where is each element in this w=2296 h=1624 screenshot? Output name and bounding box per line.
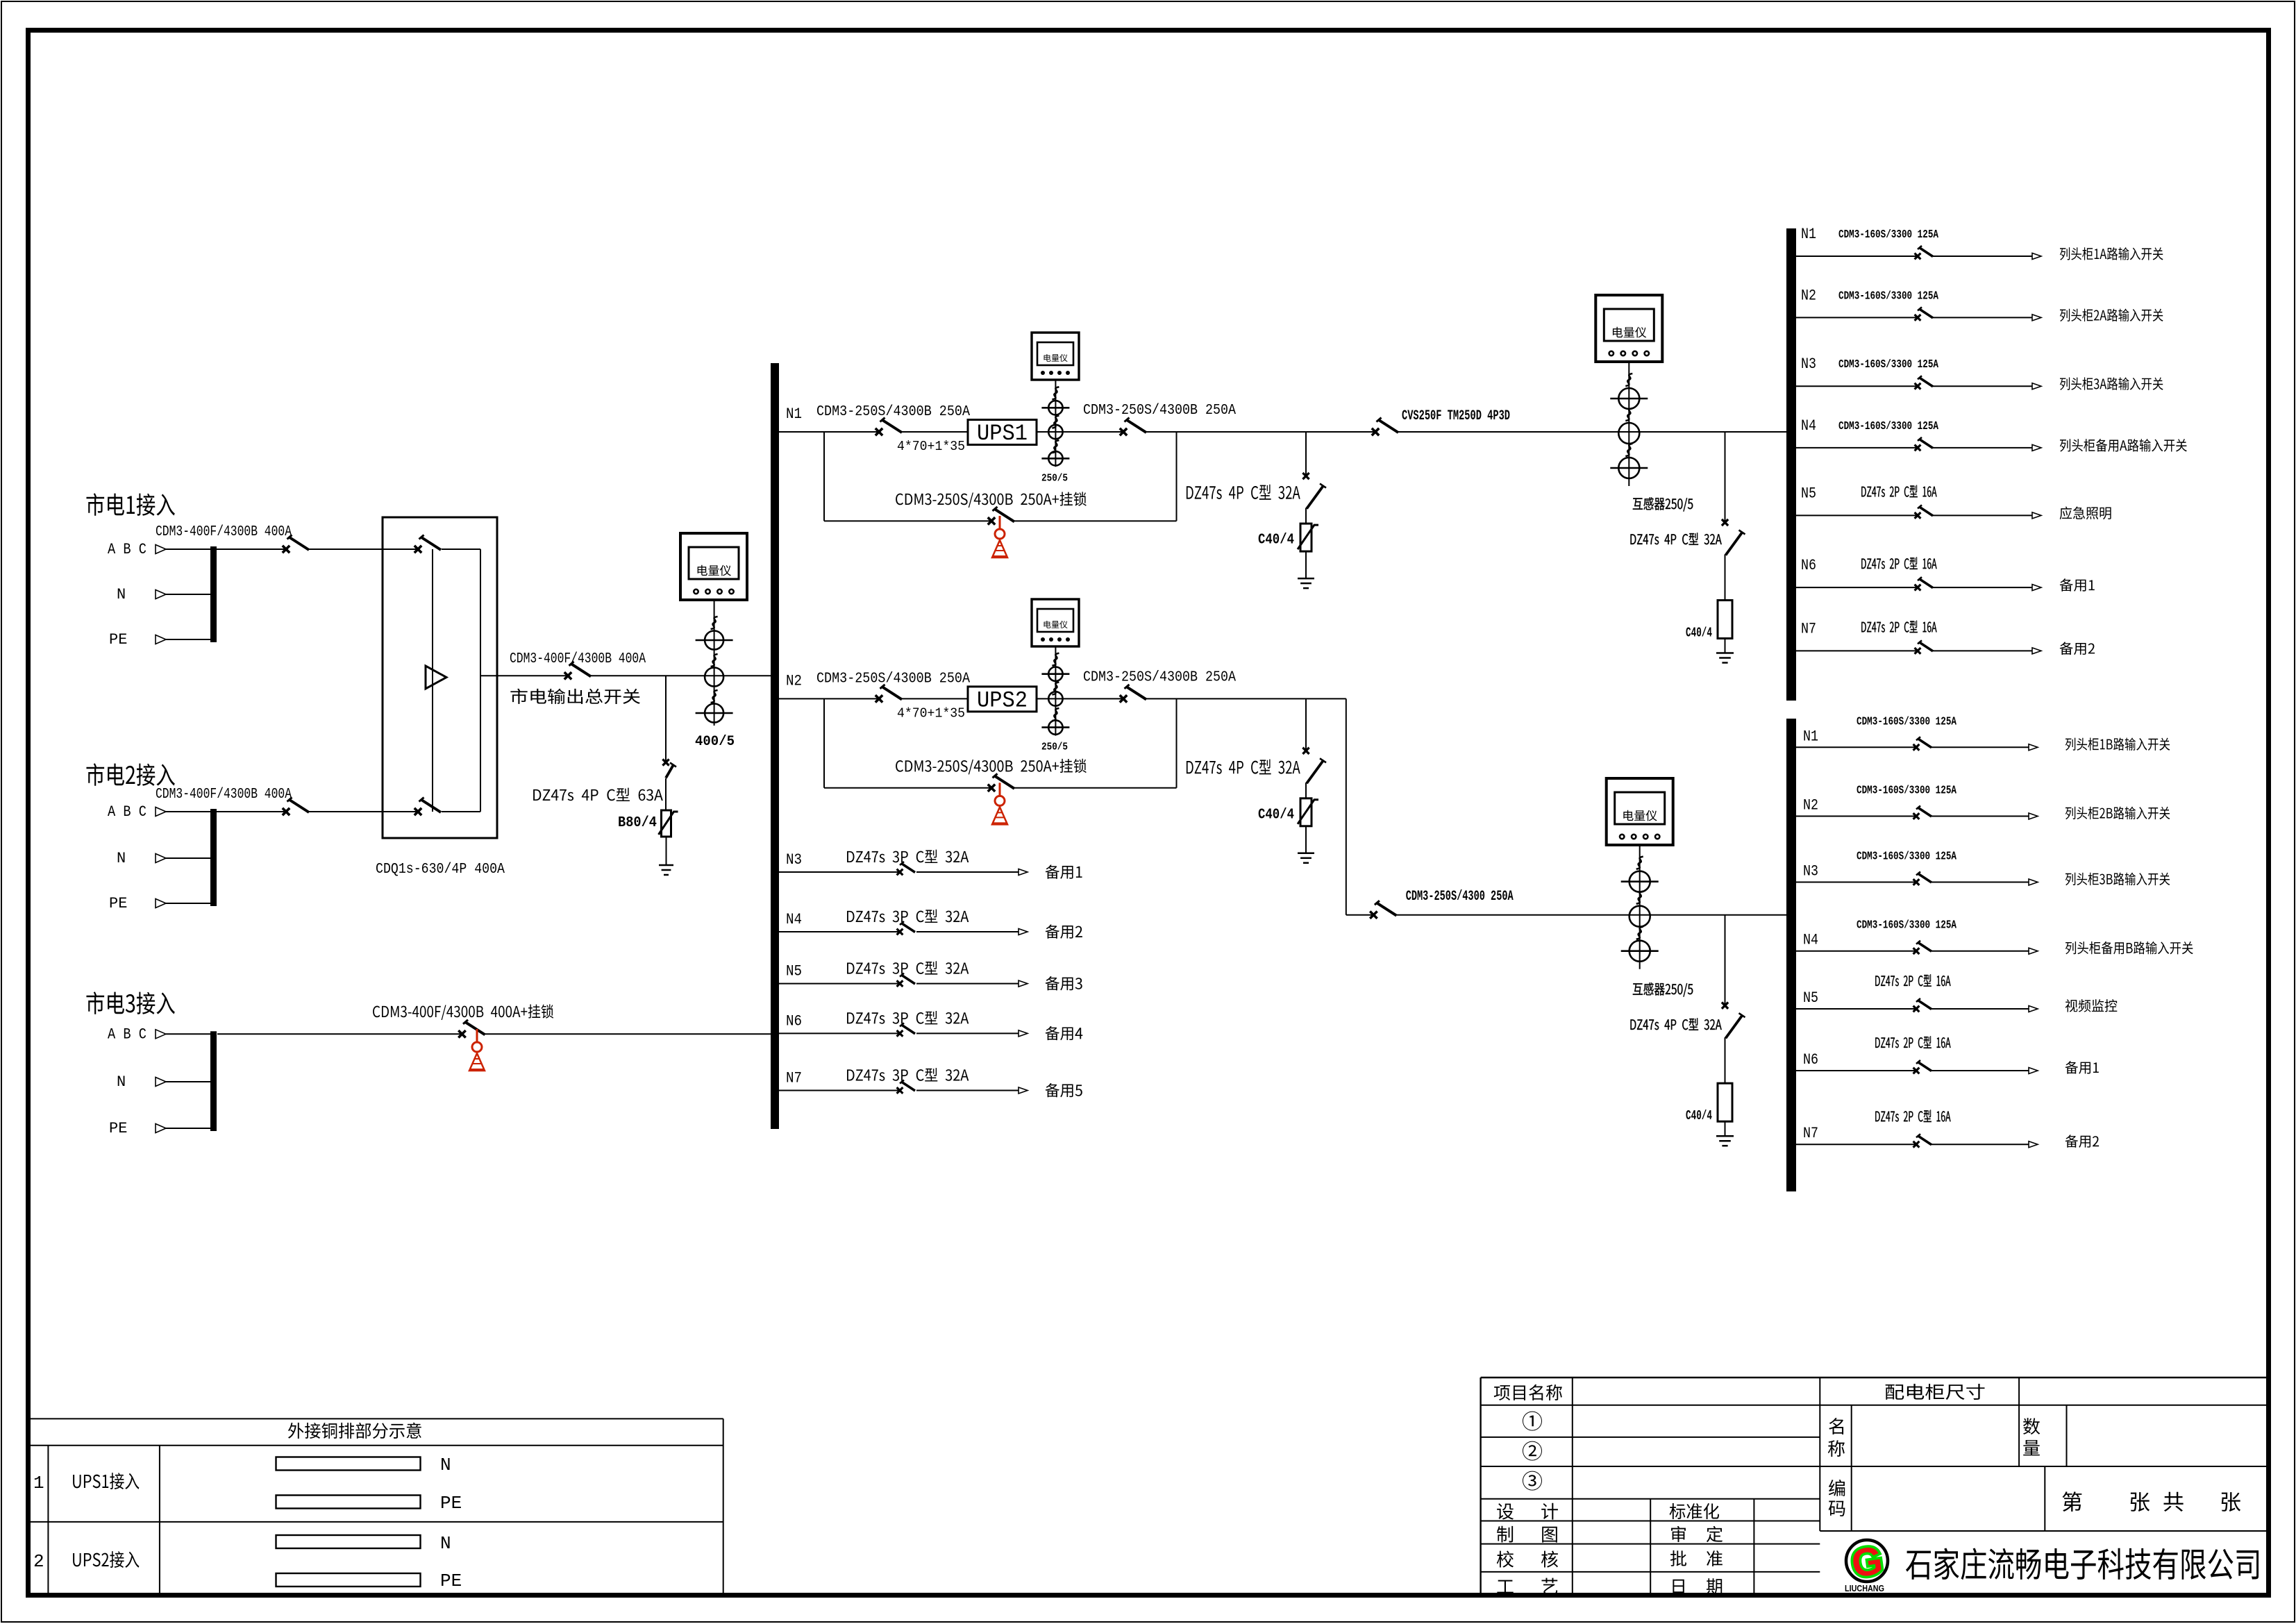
- wire mid bus N6 branch: [779, 1032, 900, 1034]
- wire meter to CT (UPS2): [1055, 646, 1056, 736]
- wire C40/4 to ground (N2): [1305, 826, 1307, 853]
- wire breaker to outgoing (bus A N3): [1933, 385, 2032, 387]
- svg-text:N6: N6: [786, 1012, 802, 1030]
- wire N1 to CVS250F breaker: [1146, 431, 1375, 433]
- breaker CDM3-250S/4300B 250A (N2 input): [875, 685, 902, 703]
- wire N to busbar (市电1): [166, 594, 210, 595]
- wire busbar to breaker (市电1): [217, 549, 286, 550]
- wire bus A N5 branch: [1796, 514, 1918, 516]
- svg-text:N7: N7: [786, 1070, 802, 1087]
- label N (UPS1 bar): [440, 1455, 451, 1475]
- label mains title 市电2接入: [86, 763, 174, 786]
- wire busbar to breaker (市电2): [217, 811, 286, 812]
- svg-text:250/5: 250/5: [1041, 472, 1068, 484]
- label LIUCHANG: [1845, 1583, 1884, 1593]
- label DZ47s 4P C型 32A (N2): [1187, 759, 1300, 774]
- label CDM3-400F/4300B 400A+挂锁 (市电3): [373, 1004, 553, 1020]
- label DZ47s 3P C型 32A (mid N4): [847, 910, 969, 923]
- breaker DZ47s 2P C型 16A (bus B N5): [1913, 998, 1932, 1012]
- breaker DZ47s 4P C型 32A (bus A): [1722, 519, 1745, 555]
- label DZ47s 3P C型 32A (mid N7): [847, 1068, 969, 1081]
- ATS changeover switch CDQ1s-630/4P outer box: [383, 517, 497, 838]
- wire bus B N2 branch: [1796, 816, 1916, 817]
- label CDQ1s-630/4P 400A: [376, 862, 505, 878]
- breaker CDM3-160S/3300 125A (bus A N2): [1915, 307, 1933, 320]
- outgoing arrow (bus A N5): [2032, 512, 2041, 519]
- node N4 (bus B): [1803, 932, 1818, 949]
- label DZ47s 2P C型 16A (bus A N5): [1861, 485, 1936, 498]
- wire bus B N3 branch: [1796, 882, 1916, 883]
- wire breaker to ATS (市电1): [309, 549, 418, 550]
- break mark: [1052, 653, 1059, 666]
- label 标准化: [1670, 1503, 1719, 1519]
- label 4*70+1*35 (N1): [897, 439, 965, 454]
- label 审定: [1671, 1526, 1723, 1542]
- outgoing arrow (bus A N3): [2032, 383, 2041, 390]
- node N input flag (市电3): [156, 1078, 166, 1087]
- node A B C input flag (市电3): [156, 1030, 166, 1039]
- wire junction to DZ47s 32A (N2): [1305, 698, 1307, 751]
- wire junction to DZ47s 32A (N1): [1305, 432, 1307, 476]
- wire breaker to outgoing (bus B N3): [1932, 882, 2029, 883]
- wire breaker to B80/4: [665, 778, 667, 810]
- label PE (UPS1 bar): [440, 1493, 462, 1514]
- wire breaker to outgoing (bus A N7): [1933, 650, 2032, 651]
- svg-text:B80/4: B80/4: [618, 815, 657, 831]
- breaker DZ47s 2P C型 16A (bus A N5): [1915, 505, 1933, 518]
- node N4 (bus A): [1801, 417, 1816, 435]
- CT 400/5 phase B: [705, 668, 723, 687]
- outgoing arrow (bus A N1): [2032, 253, 2041, 260]
- label C40/4 (bus A): [1686, 626, 1712, 641]
- svg-text:CDM3-160S/3300 125A: CDM3-160S/3300 125A: [1838, 289, 1938, 302]
- wire bypass right drop (N1): [1176, 432, 1178, 521]
- label 互感器250/5 (bus B): [1633, 982, 1693, 996]
- label CDM3-250S/4300B 250A (N1 input): [816, 404, 970, 420]
- outgoing arrow (bus B N2): [2029, 813, 2038, 819]
- node PE input flag (市电2): [156, 899, 166, 908]
- label mains title 市电1接入: [86, 493, 174, 516]
- breaker DZ47s 3P C型 32A (mid N6): [897, 1023, 915, 1036]
- svg-text:N4: N4: [786, 911, 802, 928]
- label phase A B C (市电3): [108, 1026, 146, 1043]
- busbar 市电1 input bus: [210, 546, 217, 642]
- meter 电量仪 (UPS2): [1032, 599, 1079, 646]
- label DZ47s 2P C型 16A (bus B N6): [1875, 1036, 1950, 1048]
- outgoing arrow (bus B N7): [2029, 1141, 2038, 1148]
- node N5 (bus B): [1803, 989, 1818, 1007]
- CT 250/5 phase C (UPS2): [1041, 720, 1069, 734]
- node N5 (bus A): [1801, 485, 1816, 502]
- CT 250/5 phase B (UPS1): [1048, 425, 1062, 439]
- wire UPS1 to CT: [1037, 431, 1123, 433]
- wire breaker to outgoing (bus A N5): [1933, 514, 2032, 516]
- wire bus B N1 branch: [1796, 746, 1916, 748]
- padlock symbol (bypass N2): [992, 782, 1007, 824]
- outgoing arrow (mid N7): [1019, 1087, 1028, 1094]
- label 列头柜1B路输入开关: [2065, 737, 2170, 751]
- svg-text:A B C: A B C: [108, 541, 146, 558]
- label PE (UPS2 bar): [440, 1571, 462, 1591]
- wire junction to DZ47s 63A breaker: [665, 676, 667, 762]
- node N1 (bus A): [1801, 226, 1816, 243]
- wire bus A N6 branch: [1796, 587, 1918, 588]
- node PE input flag (市电3): [156, 1124, 166, 1133]
- svg-text:PE: PE: [109, 631, 127, 648]
- svg-text:N3: N3: [1803, 863, 1818, 880]
- node N3 (mid bus): [786, 851, 802, 869]
- svg-text:CDM3-250S/4300B 250A: CDM3-250S/4300B 250A: [1083, 403, 1236, 419]
- breaker CDM3-400F/4300B 400A 市电输出总开关: [564, 662, 591, 680]
- label 外接铜排部分示意: [288, 1423, 421, 1439]
- wire 市电3 breaker to mid bus N: [485, 1033, 771, 1035]
- label DZ47s 4P C型 32A (N1): [1187, 485, 1300, 500]
- copper bar PE (UPS2): [276, 1573, 421, 1587]
- label CDM3-250S/4300B 250A (N2 output): [1083, 669, 1236, 685]
- wire breaker to outgoing (bus A N1): [1933, 256, 2032, 257]
- label CDM3-160S/3300 125A (bus B N3): [1857, 850, 1956, 863]
- label 400/5: [695, 734, 735, 750]
- wire breaker to outgoing (mid N5): [916, 983, 1019, 985]
- label 备用4: [1046, 1026, 1083, 1040]
- padlock symbol (市电3 breaker): [469, 1029, 485, 1071]
- label 列头柜3A路输入开关: [2060, 377, 2163, 390]
- meter 电量仪 (UPS1): [1032, 333, 1079, 380]
- label 应急照明: [2060, 506, 2111, 519]
- wire ABC to busbar (市电2): [166, 811, 210, 812]
- break mark: [711, 617, 718, 629]
- breaker CDM3-400F/4300B 400A (市电2): [283, 798, 309, 816]
- svg-text:CVS250F TM250D 4P3D: CVS250F TM250D 4P3D: [1402, 408, 1510, 424]
- table header divider: [28, 1445, 723, 1446]
- label 日期: [1673, 1578, 1722, 1594]
- breaker CDM3-250S/4300 250A (bus B feed): [1370, 901, 1396, 919]
- busbar N (middle distribution bus): [771, 363, 779, 1129]
- wire UPS2 to CT: [1037, 698, 1123, 699]
- ATS internal top link: [442, 549, 480, 550]
- svg-text:CDM3-400F/4300B 400A: CDM3-400F/4300B 400A: [156, 787, 292, 803]
- outgoing arrow (mid N5): [1019, 980, 1028, 987]
- svg-text:UPS1: UPS1: [977, 421, 1028, 446]
- label CDM3-160S/3300 125A (bus B N1): [1857, 714, 1956, 728]
- breaker CDM3-250S/4300B 250A+挂锁 (bypass N1): [988, 507, 1014, 525]
- wire mid bus to breaker (N1): [779, 431, 879, 433]
- breaker CDM3-160S/3300 125A (bus B N1): [1913, 737, 1932, 750]
- svg-text:PE: PE: [440, 1493, 462, 1514]
- wire PE to busbar (市电1): [166, 639, 210, 640]
- ground (SPD N1): [1298, 578, 1314, 588]
- label 项目名称: [1494, 1384, 1562, 1400]
- node N6 (mid bus): [786, 1012, 802, 1030]
- wire breaker to C40/4 (N1): [1305, 508, 1307, 524]
- outgoing arrow (bus A N4): [2032, 444, 2041, 451]
- svg-text:CDM3-160S/3300 125A: CDM3-160S/3300 125A: [1838, 419, 1938, 433]
- wire breaker to UPS2: [902, 698, 968, 699]
- svg-text:CDM3-160S/3300 125A: CDM3-160S/3300 125A: [1857, 919, 1956, 932]
- break mark: [1636, 927, 1643, 939]
- CT 互感器250/5 phase C (bus A): [1610, 458, 1648, 478]
- wire PE to busbar (市电2): [166, 903, 210, 904]
- node N input flag (市电1): [156, 590, 166, 599]
- label 市电输出总开关: [510, 689, 640, 704]
- label 备用3: [1046, 976, 1082, 990]
- svg-text:N1: N1: [1803, 728, 1818, 745]
- label 石家庄流畅电子科技有限公司: [1906, 1548, 2259, 1580]
- label row 1: [33, 1473, 44, 1493]
- label row 2: [33, 1551, 44, 1572]
- svg-text:CDM3-250S/4300B 250A: CDM3-250S/4300B 250A: [1083, 669, 1236, 685]
- label C40/4 (bus B): [1686, 1108, 1712, 1123]
- label 列头柜备用B路输入开关: [2065, 941, 2193, 955]
- svg-text:PE: PE: [109, 1120, 127, 1137]
- wire C40/4 to ground (N1): [1305, 551, 1307, 578]
- label PE (市电1): [109, 631, 127, 648]
- svg-text:1: 1: [33, 1473, 44, 1493]
- surge arrester C40/4 (N1): [1298, 524, 1318, 551]
- label CVS250F TM250D 4P3D: [1402, 408, 1510, 424]
- wire meter to CT (bus B): [1639, 844, 1641, 969]
- svg-text:N1: N1: [786, 405, 802, 423]
- svg-text:N4: N4: [1803, 932, 1818, 949]
- label 配电柜尺寸: [1886, 1384, 1985, 1400]
- label N (市电3): [117, 1073, 126, 1091]
- wire breaker to outgoing (bus B N2): [1932, 816, 2029, 817]
- svg-text:CDM3-160S/3300 125A: CDM3-160S/3300 125A: [1838, 358, 1938, 371]
- outgoing arrow (mid N4): [1019, 929, 1028, 935]
- svg-text:N3: N3: [1801, 355, 1816, 373]
- svg-text:PE: PE: [440, 1571, 462, 1591]
- wire meter to CT (UPS1): [1055, 380, 1056, 467]
- wire junction to DZ47s 32A (bus B): [1725, 915, 1726, 1006]
- copper bar N (UPS2): [276, 1535, 421, 1548]
- svg-text:N: N: [440, 1533, 451, 1554]
- busbar 市电2 input bus: [210, 809, 217, 906]
- breaker CVS250F TM250D 4P3D: [1372, 418, 1398, 436]
- svg-text:CDM3-400F/4300B 400A: CDM3-400F/4300B 400A: [156, 524, 292, 540]
- break mark: [1636, 891, 1643, 904]
- wire C40/4 to ground (bus A): [1725, 639, 1726, 653]
- breaker DZ47s 2P C型 16A (bus A N7): [1915, 640, 1933, 653]
- label N (市电1): [117, 586, 126, 603]
- label phase A B C (市电2): [108, 803, 146, 821]
- svg-text:400/5: 400/5: [695, 734, 735, 750]
- label CDM3-160S/3300 125A (bus A N2): [1838, 289, 1938, 302]
- svg-text:A B C: A B C: [108, 1026, 146, 1043]
- node N4 (mid bus): [786, 911, 802, 928]
- wire PE to busbar (市电3): [166, 1128, 210, 1129]
- svg-text:N5: N5: [786, 963, 802, 980]
- wire mid bus N3 branch: [779, 871, 900, 873]
- label CDM3-400F/4300B 400A (市电2): [156, 787, 292, 803]
- wire N2 corner drop: [1346, 698, 1347, 914]
- padlock symbol (bypass N1): [992, 516, 1007, 558]
- label 备用1: [2065, 1061, 2099, 1074]
- svg-text:4*70+1*35: 4*70+1*35: [897, 439, 965, 454]
- label CDM3-250S/4300B 250A (N1 output): [1083, 403, 1236, 419]
- logo LIUCHANG G mark: [1846, 1538, 1888, 1587]
- wire breaker to outgoing (mid N4): [916, 931, 1019, 932]
- outgoing arrow (bus A N6): [2032, 585, 2041, 591]
- label 数量 (vertical): [2023, 1418, 2040, 1455]
- ground (B80/4): [659, 865, 673, 875]
- table right edge: [723, 1418, 724, 1595]
- breaker DZ47s 3P C型 32A (mid N4): [897, 921, 915, 935]
- wire breaker to outgoing (bus B N1): [1932, 746, 2029, 748]
- node N2 (bus B): [1803, 797, 1818, 814]
- breaker CDM3-250S/4300B 250A+挂锁 (bypass N2): [988, 773, 1014, 792]
- wire breaker to outgoing (mid N3): [916, 871, 1019, 873]
- wire N to busbar (市电3): [166, 1081, 210, 1082]
- label 列头柜2A路输入开关: [2060, 309, 2163, 322]
- break mark: [1636, 857, 1643, 869]
- label 视频监控: [2065, 999, 2118, 1012]
- wire bus A N3 branch: [1796, 385, 1918, 387]
- table row divider: [28, 1521, 723, 1523]
- wire ATS output to breaker: [480, 675, 568, 676]
- wire meter to CT string (400/5): [714, 600, 715, 726]
- wire bypass right drop (N2): [1176, 698, 1178, 787]
- label PE (市电2): [109, 895, 127, 912]
- label ③ row 3: [1523, 1471, 1542, 1491]
- breaker DZ47s 4P C型 32A (N2): [1302, 748, 1326, 784]
- label 备用1: [2060, 578, 2095, 592]
- wire breaker to C40/4 (bus B): [1725, 1037, 1726, 1083]
- label 工艺: [1497, 1578, 1557, 1594]
- label 备用2: [2060, 642, 2095, 655]
- meter 电量仪 (市电输出): [680, 533, 747, 600]
- wire breaker to outgoing (mid N7): [916, 1090, 1019, 1091]
- breaker DZ47s 3P C型 32A (mid N7): [897, 1080, 915, 1094]
- label B80/4: [618, 815, 657, 831]
- label PE (市电3): [109, 1120, 127, 1137]
- svg-text:LIUCHANG: LIUCHANG: [1845, 1583, 1884, 1593]
- label UPS2: [977, 687, 1028, 713]
- svg-text:C40/4: C40/4: [1258, 807, 1294, 823]
- label CDM3-250S/4300 250A (bus B feed): [1406, 889, 1514, 905]
- label 列头柜1A路输入开关: [2060, 247, 2163, 260]
- wire breaker to outgoing (mid N6): [916, 1032, 1019, 1034]
- outgoing arrow (bus B N4): [2029, 948, 2038, 954]
- CT 400/5 phase A: [696, 631, 733, 650]
- node N input flag (市电2): [156, 854, 166, 863]
- wire N to busbar (市电2): [166, 857, 210, 859]
- breaker DZ47s 4P C型 32A (bus B): [1722, 1003, 1745, 1039]
- label 250/5 (UPS1): [1041, 472, 1068, 484]
- label 编码 (vertical): [1829, 1480, 1845, 1516]
- label CDM3-160S/3300 125A (bus B N2): [1857, 784, 1956, 797]
- wire bus B N6 branch: [1796, 1070, 1916, 1071]
- label CDM3-160S/3300 125A (bus A N1): [1838, 228, 1938, 241]
- svg-text:CDM3-250S/4300B 250A: CDM3-250S/4300B 250A: [816, 404, 970, 420]
- CT 400/5 phase C: [696, 704, 733, 723]
- label 4*70+1*35 (N2): [897, 705, 965, 721]
- surge arrester C40/4 (N2): [1298, 798, 1318, 826]
- break mark: [1052, 708, 1059, 721]
- label DZ47s 4P C型 32A (bus B): [1631, 1018, 1722, 1030]
- svg-text:CDM3-160S/3300 125A: CDM3-160S/3300 125A: [1857, 850, 1956, 863]
- surge arrester B80/4: [659, 810, 678, 837]
- svg-text:N1: N1: [1801, 226, 1816, 243]
- wire breaker to bus B: [1396, 914, 1786, 916]
- label 互感器250/5 (bus A): [1633, 497, 1693, 511]
- ground (SPD N2): [1298, 853, 1314, 863]
- break mark: [1625, 444, 1632, 456]
- wire breaker to outgoing (bus B N4): [1932, 951, 2029, 952]
- UPS2 box: [968, 687, 1037, 712]
- svg-text:CDM3-250S/4300 250A: CDM3-250S/4300 250A: [1406, 889, 1514, 905]
- label CDM3-160S/3300 125A (bus B N4): [1857, 919, 1956, 932]
- svg-text:N: N: [117, 586, 126, 603]
- svg-text:UPS2: UPS2: [977, 687, 1028, 713]
- svg-text:CDQ1s-630/4P 400A: CDQ1s-630/4P 400A: [376, 862, 505, 878]
- node N2 (mid bus): [786, 672, 802, 689]
- breaker DZ47s 3P C型 32A (mid N5): [897, 973, 915, 987]
- wire bus B N5 branch: [1796, 1008, 1916, 1010]
- node N6 (bus A): [1801, 557, 1816, 574]
- breaker DZ47s 2P C型 16A (bus B N7): [1913, 1134, 1932, 1147]
- svg-text:N: N: [440, 1455, 451, 1475]
- wire B80/4 to ground: [666, 837, 667, 865]
- label DZ47s 2P C型 16A (bus B N5): [1875, 974, 1950, 987]
- label 备用2: [2065, 1135, 2100, 1148]
- breaker CDM3-250S/4300B 250A (N2 output): [1120, 685, 1146, 703]
- svg-text:C40/4: C40/4: [1686, 626, 1712, 641]
- wire bus A N7 branch: [1796, 650, 1918, 651]
- svg-text:PE: PE: [109, 895, 127, 912]
- ATS actuator triangle: [426, 666, 446, 689]
- outgoing arrow (bus B N3): [2029, 879, 2038, 885]
- svg-text:N5: N5: [1803, 989, 1818, 1007]
- surge arrester C40/4 (bus B): [1718, 1083, 1732, 1121]
- outgoing arrow (bus A N7): [2032, 648, 2041, 654]
- wire bus A N4 branch: [1796, 447, 1918, 449]
- wire breaker to C40/4 (bus A): [1725, 555, 1726, 601]
- wire bypass line right (N2): [1014, 787, 1177, 789]
- wire mid bus N5 branch: [779, 983, 900, 985]
- svg-text:N7: N7: [1803, 1125, 1818, 1142]
- ATS internal breaker top (input 1): [414, 535, 441, 553]
- wire bus A N2 branch: [1796, 317, 1918, 318]
- label N (UPS2 bar): [440, 1533, 451, 1554]
- svg-text:N: N: [117, 1073, 126, 1091]
- CT 250/5 phase A (UPS2): [1041, 667, 1069, 681]
- label ① row 1: [1523, 1412, 1542, 1431]
- node N3 (bus A): [1801, 355, 1816, 373]
- label DZ47s 2P C型 16A (bus A N6): [1861, 557, 1936, 569]
- breaker CDM3-160S/3300 125A (bus B N3): [1913, 872, 1932, 885]
- CT 250/5 phase C (UPS1): [1041, 451, 1069, 465]
- label 设计: [1497, 1503, 1558, 1520]
- breaker CDM3-400F/4300B 400A (市电1): [283, 535, 309, 553]
- breaker CDM3-160S/3300 125A (bus A N4): [1915, 437, 1933, 451]
- label UPS2接入: [73, 1551, 139, 1568]
- wire breaker to outgoing (bus A N6): [1933, 587, 2032, 588]
- wire bypass left drop (N1): [823, 432, 825, 521]
- ATS internal bottom link: [442, 811, 480, 812]
- wire CVS250F to bus A: [1398, 431, 1786, 433]
- wire busbar to breaker (市电3): [217, 1033, 462, 1035]
- wire meter to CT (bus A): [1628, 361, 1629, 486]
- busbar B (row-head cabinets B): [1786, 719, 1796, 1191]
- break mark: [1625, 374, 1632, 386]
- svg-text:N3: N3: [786, 851, 802, 869]
- breaker CDM3-160S/3300 125A (bus A N3): [1915, 376, 1933, 389]
- node N7 (bus A): [1801, 620, 1816, 637]
- label CDM3-400F/4300B 400A (市电输出): [510, 651, 646, 667]
- svg-text:4*70+1*35: 4*70+1*35: [897, 705, 965, 721]
- svg-text:N2: N2: [786, 672, 802, 689]
- label 制图: [1497, 1526, 1557, 1543]
